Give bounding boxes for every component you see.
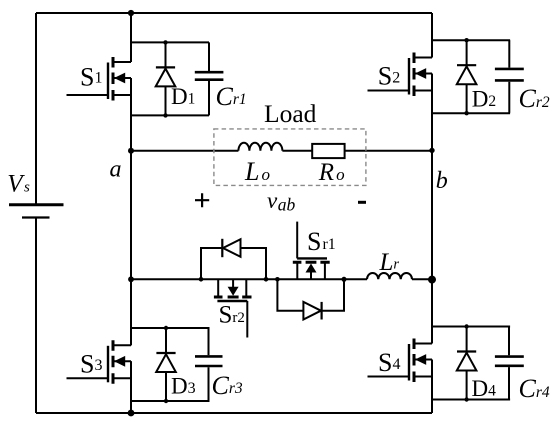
svg-text:Cr3: Cr3 (212, 371, 243, 400)
svg-text:Lr: Lr (379, 249, 400, 276)
svg-text:b: b (436, 168, 448, 194)
svg-text:Cr2: Cr2 (519, 84, 550, 113)
svg-text:S2: S2 (378, 62, 400, 91)
svg-text:Ro: Ro (318, 159, 345, 186)
svg-text:D4: D4 (472, 376, 497, 401)
svg-text:Lo: Lo (244, 157, 270, 186)
svg-text:Cr4: Cr4 (519, 374, 550, 403)
svg-text:Load: Load (264, 99, 317, 128)
svg-text:vab: vab (267, 188, 295, 215)
svg-text:S3: S3 (80, 350, 102, 379)
svg-text:Cr1: Cr1 (216, 82, 247, 111)
svg-text:S4: S4 (378, 348, 400, 377)
svg-text:Vs: Vs (7, 171, 30, 198)
svg-text:Sr1: Sr1 (307, 227, 336, 256)
svg-text:S1: S1 (80, 63, 102, 92)
svg-text:Sr2: Sr2 (219, 302, 245, 329)
svg-text:D2: D2 (472, 86, 496, 111)
svg-text:D1: D1 (171, 84, 195, 109)
svg-text:D3: D3 (171, 374, 196, 399)
svg-text:a: a (110, 156, 122, 182)
